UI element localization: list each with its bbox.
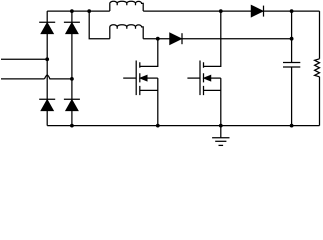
junction: bottom rail / Q2 source and ground bbox=[219, 124, 223, 128]
MOSFET Q1 channel segments bbox=[139, 62, 141, 95]
junction: top rail / Q2 drain bbox=[219, 9, 223, 13]
middle row wire bbox=[143, 38, 291, 40]
bridge diode DB2 top-right triangle bbox=[66, 23, 78, 34]
MOSFET Q1 body stub bbox=[147, 77, 158, 79]
boost diode D1 cathode bar bbox=[263, 6, 265, 17]
wire hop over bridge column 1 bbox=[45, 75, 72, 79]
bridge diode DB3 bottom-left triangle bbox=[41, 100, 53, 111]
junction: bottom rail / Q1 source bbox=[156, 124, 160, 128]
ground bar 1 bbox=[212, 137, 229, 139]
bottom rail wire bbox=[47, 125, 319, 127]
junction: middle row / Q1 drain bbox=[156, 37, 160, 41]
load resistor R bbox=[315, 59, 320, 77]
junction: top rail / column 2 bbox=[70, 9, 74, 13]
MOSFET Q2 source stub and drop bbox=[204, 78, 221, 126]
MOSFET Q1 gate lead bbox=[123, 77, 136, 79]
junction: input 1 / column 1 bbox=[45, 57, 49, 61]
ground bar 2 bbox=[215, 140, 226, 142]
MOSFET Q2 gate lead bbox=[187, 77, 200, 79]
bridge diode DB2 top-right cathode bar bbox=[64, 21, 80, 23]
right edge wire (resistor leads) bbox=[319, 11, 321, 126]
inductor L1 bbox=[110, 1, 143, 11]
MOSFET Q1 body arrow bbox=[141, 76, 147, 81]
MOSFET Q2 body stub bbox=[211, 77, 221, 79]
output capacitor C bottom plate bbox=[283, 66, 300, 68]
junction: top rail / inductor split node bbox=[87, 9, 91, 13]
bridge diode DB4 bottom-right triangle bbox=[66, 100, 78, 111]
boost diode D2 cathode bar bbox=[181, 33, 183, 44]
bridge diode DB4 bottom-right cathode bar bbox=[64, 98, 80, 100]
MOSFET Q2 drain stub and riser bbox=[204, 11, 221, 66]
AC input line 1 bbox=[1, 58, 47, 60]
junction: input 2 / column 2 bbox=[70, 77, 74, 81]
MOSFET Q1 gate bar bbox=[135, 61, 137, 96]
MOSFET Q1 source stub and drop bbox=[140, 78, 158, 126]
inductor L2 bbox=[110, 25, 143, 39]
ground bar 3 bbox=[219, 144, 224, 146]
output capacitor C bottom lead bbox=[291, 67, 293, 126]
MOSFET Q1 drain stub and riser bbox=[140, 39, 158, 67]
junction: bottom rail / capacitor bbox=[290, 124, 294, 128]
ground stub bbox=[220, 126, 222, 138]
bridge column 1 wire bbox=[46, 11, 48, 126]
junction: top rail / capacitor branch bbox=[290, 9, 294, 13]
wire from node to inductor L2 bbox=[89, 11, 110, 39]
boost diode D2 (middle row) triangle bbox=[170, 33, 181, 44]
junction: bottom rail / column 2 bbox=[70, 124, 74, 128]
output capacitor C top plate bbox=[283, 62, 300, 64]
bridge diode DB3 bottom-left cathode bar bbox=[39, 98, 55, 100]
bridge column 2 wire bbox=[71, 11, 73, 126]
MOSFET Q2 body arrow bbox=[204, 76, 210, 81]
MOSFET Q2 gate bar bbox=[199, 61, 201, 96]
MOSFET Q2 channel segments bbox=[203, 62, 205, 95]
AC input line 2 bbox=[1, 78, 45, 80]
bridge diode DB1 top-left cathode bar bbox=[39, 21, 55, 23]
bridge diode DB1 top-left triangle bbox=[41, 23, 53, 34]
junction: middle row / capacitor branch bbox=[290, 37, 294, 41]
boost diode D1 (top row) triangle bbox=[251, 6, 262, 17]
output capacitor C top lead bbox=[291, 11, 293, 62]
top rail wire bbox=[47, 10, 319, 12]
